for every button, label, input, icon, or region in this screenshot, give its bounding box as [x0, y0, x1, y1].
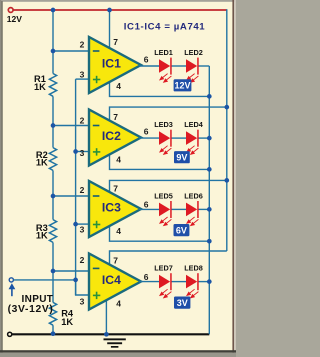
wire LED link row 4	[171, 281, 186, 283]
junction B pin7 IC2	[224, 105, 229, 110]
resistor R1	[49, 74, 56, 97]
pin 3 non-inverting input marker IC4	[93, 292, 100, 299]
LED LED3	[159, 131, 170, 145]
LED LED1	[159, 59, 170, 73]
pin 3 non-inverting input marker IC2	[93, 148, 100, 155]
svg-text:3: 3	[80, 225, 85, 235]
svg-text:2: 2	[80, 116, 85, 126]
svg-text:12V: 12V	[174, 81, 190, 91]
svg-text:LED8: LED8	[184, 264, 203, 273]
junction A pin4 IC1	[207, 94, 212, 99]
svg-text:LED6: LED6	[184, 191, 203, 200]
LED LED6	[186, 203, 197, 217]
wire input line	[14, 279, 76, 281]
wire pin6 output row 2	[139, 137, 159, 139]
svg-text:3: 3	[80, 70, 85, 80]
junction A row2	[207, 136, 212, 141]
svg-text:(3V-12V): (3V-12V)	[8, 304, 54, 315]
wire pin3 net IC1	[76, 78, 91, 80]
wire pin7 supply IC1	[109, 10, 111, 50]
label voltage box 3V	[174, 297, 190, 309]
svg-text:4: 4	[116, 226, 121, 236]
svg-text:3: 3	[80, 148, 85, 158]
wire pin2 net IC3	[53, 195, 91, 197]
wire pin2 net IC4	[53, 270, 91, 272]
svg-text:3V: 3V	[177, 298, 188, 308]
svg-text:LED5: LED5	[154, 191, 173, 200]
resistor R2	[49, 148, 56, 171]
svg-text:4: 4	[116, 81, 121, 91]
junction divider pin2 IC2	[51, 123, 56, 128]
svg-text:2: 2	[80, 255, 85, 265]
wire pin3 net IC3	[76, 223, 91, 225]
wire pin4 ground IC4	[105, 298, 107, 334]
svg-text:7: 7	[113, 256, 118, 266]
svg-text:6: 6	[144, 127, 149, 137]
wire pin4 ground IC1	[110, 80, 210, 96]
junction A pin4 IC3	[207, 239, 212, 244]
wire pin4 ground IC3	[110, 224, 210, 241]
wire pin4 ground IC2	[110, 153, 210, 170]
svg-text:4: 4	[116, 155, 121, 165]
svg-text:IC1: IC1	[102, 57, 121, 71]
op-amp IC4	[89, 254, 141, 310]
junction divider/red rail	[51, 8, 56, 13]
wire pin6 output row 4	[139, 281, 159, 283]
svg-text:LED4: LED4	[184, 120, 204, 129]
junction A row3	[207, 207, 212, 212]
junction bus pin3 IC2	[73, 149, 78, 154]
svg-text:2: 2	[80, 185, 85, 195]
node 12V supply terminal	[8, 8, 13, 13]
label voltage box 9V	[174, 151, 190, 163]
svg-text:6V: 6V	[176, 226, 187, 236]
wire LED link row 2	[171, 137, 186, 139]
svg-text:LED2: LED2	[184, 48, 203, 57]
svg-text:4: 4	[116, 299, 121, 309]
wire pin2 net IC1	[53, 50, 91, 52]
svg-text:12V: 12V	[7, 14, 22, 24]
wire LED link row 1	[171, 65, 186, 67]
svg-text:7: 7	[113, 37, 118, 47]
op-amp IC1	[89, 37, 141, 93]
wire +12V rail (red, top)	[13, 9, 227, 11]
svg-text:7: 7	[113, 184, 118, 194]
svg-text:6: 6	[144, 55, 149, 65]
resistor R4	[49, 302, 56, 325]
svg-text:1K: 1K	[34, 82, 46, 92]
junction bus/input line	[73, 278, 78, 283]
label voltage box 6V	[174, 224, 190, 236]
svg-text:3: 3	[80, 297, 85, 307]
LED LED7	[159, 275, 170, 289]
wire +12V right rail (vertical)	[226, 9, 228, 251]
node INPUT terminal	[9, 278, 13, 282]
wire pin6 output row 3	[139, 208, 159, 210]
LED LED8	[186, 275, 197, 289]
junction B pin7 IC3	[224, 178, 229, 183]
svg-text:6: 6	[144, 272, 149, 282]
svg-text:LED3: LED3	[154, 120, 173, 129]
svg-text:IC1-IC4 = µA741: IC1-IC4 = µA741	[124, 21, 206, 32]
svg-text:1K: 1K	[61, 317, 73, 327]
junction A row4	[207, 279, 212, 284]
node ground terminal	[8, 332, 12, 336]
svg-text:IC3: IC3	[102, 201, 121, 215]
junction pin7 IC1/red rail	[107, 8, 112, 13]
wire pin3 net IC2	[76, 151, 91, 153]
wire LED return bus (vertical right of LEDs)	[208, 66, 210, 334]
pin 3 non-inverting input marker IC1	[93, 76, 100, 83]
resistor R3	[49, 220, 56, 243]
svg-text:7: 7	[113, 112, 118, 122]
wire resistor divider (vertical)	[52, 10, 54, 74]
LED LED5	[159, 203, 170, 217]
wire LED link row 3	[171, 208, 186, 210]
wire pin7 supply IC3	[110, 180, 227, 194]
pin 2 inverting input marker IC1	[93, 50, 100, 52]
svg-text:LED1: LED1	[154, 48, 173, 57]
svg-text:IC4: IC4	[102, 273, 121, 287]
svg-text:2: 2	[80, 40, 85, 50]
svg-text:LED7: LED7	[154, 264, 173, 273]
wire ground rail	[12, 333, 209, 335]
wire non-inverting input bus (vertical)	[75, 79, 77, 295]
junction divider pin2 IC1	[51, 49, 56, 54]
op-amp IC3	[89, 181, 141, 237]
pin 2 inverting input marker IC4	[93, 268, 100, 270]
junction bus pin3 IC3	[73, 222, 78, 227]
junction ground pin4 IC4	[104, 332, 109, 337]
LED LED2	[186, 59, 197, 73]
junction divider pin2 IC3	[51, 194, 56, 199]
svg-text:IC2: IC2	[102, 129, 121, 143]
junction divider pin2 IC4	[51, 269, 56, 274]
wire pin6 output row 1	[139, 65, 159, 67]
junction A pin4 IC2	[207, 167, 212, 172]
LED LED4	[186, 131, 197, 145]
wire pin7 supply IC2	[110, 107, 227, 122]
pin 2 inverting input marker IC2	[93, 125, 100, 127]
pin 2 inverting input marker IC3	[93, 195, 100, 197]
svg-text:1K: 1K	[36, 158, 48, 168]
ground	[104, 338, 126, 347]
wire pin2 net IC2	[53, 125, 91, 127]
label INPUT arrow	[9, 283, 16, 289]
svg-text:9V: 9V	[176, 153, 187, 163]
op-amp IC2	[89, 110, 141, 166]
svg-text:6: 6	[144, 200, 149, 210]
wire pin7 supply IC4	[110, 251, 227, 267]
pin 3 non-inverting input marker IC3	[93, 221, 100, 228]
wire pin3 net IC4	[76, 280, 91, 295]
junction divider/ground	[51, 331, 56, 336]
svg-text:1K: 1K	[36, 231, 48, 241]
label voltage box 12V	[174, 79, 192, 91]
